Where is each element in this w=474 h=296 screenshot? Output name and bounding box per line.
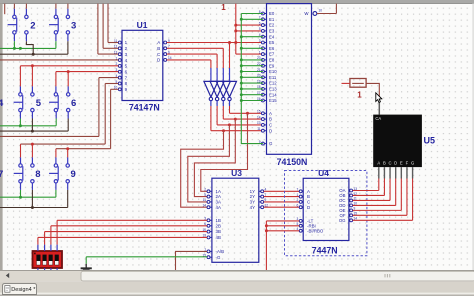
- node dark dot pair8b: [31, 206, 34, 209]
- pin 74150N E6: [263, 47, 267, 49]
- pin 74150N E8: [263, 59, 267, 61]
- DIP switch S1: [33, 251, 63, 268]
- node green dot E11: [240, 76, 243, 79]
- svg-text:1: 1: [297, 193, 299, 197]
- wire U1 D net: [167, 59, 211, 61]
- svg-text:2A: 2A: [216, 194, 221, 199]
- svg-text:6: 6: [259, 21, 261, 25]
- wire inverter output: [210, 101, 212, 106]
- wire staircase to U3: [188, 125, 230, 202]
- wire stub left: [4, 4, 6, 15]
- svg-text:B: B: [157, 46, 160, 51]
- wire pair9b top: [67, 149, 69, 158]
- display lead F: [406, 167, 408, 178]
- left window border: [0, 4, 3, 281]
- wire to U1 pin4: [0, 59, 118, 61]
- svg-text:-BI/RBO: -BI/RBO: [307, 228, 324, 233]
- switch J5b (open): [31, 93, 34, 112]
- wire green run row2: [0, 125, 56, 127]
- scrollbar left button: [6, 273, 9, 278]
- scrollbar thumb: [81, 271, 474, 281]
- wire run pair9 to U1 pin9: [56, 148, 111, 150]
- svg-text:3Y: 3Y: [250, 200, 255, 205]
- node green dot E6: [240, 47, 243, 50]
- pin U3 2Y: [259, 196, 262, 198]
- wire green run row3: [0, 196, 56, 198]
- wire green stub E10: [241, 71, 263, 73]
- mouse cursor: [376, 93, 382, 103]
- wire run to U1 pin7: [0, 135, 99, 137]
- pin U3 1Y: [259, 190, 262, 192]
- node dot staircase: [234, 118, 237, 121]
- wire R1 to display CA: [366, 83, 379, 97]
- wire inv3 input: [222, 48, 224, 68]
- svg-text:A: A: [307, 189, 310, 194]
- wire green stub E1: [241, 18, 263, 20]
- svg-text:E3: E3: [269, 29, 275, 34]
- svg-text:1: 1: [357, 90, 362, 99]
- display U5 body: [373, 115, 422, 168]
- svg-text:1A: 1A: [216, 189, 221, 194]
- svg-text:E2: E2: [269, 23, 275, 28]
- pin U3 1A: [209, 190, 212, 192]
- display lead D: [395, 167, 397, 178]
- node green dot E12: [240, 82, 243, 85]
- svg-text:5: 5: [259, 27, 261, 31]
- op-amp U1 box 74147N: [122, 30, 163, 100]
- display lead E: [400, 167, 402, 178]
- inverter U2a: [204, 81, 218, 97]
- switch J3a (closed): [49, 15, 58, 34]
- pin U3 2A: [209, 196, 212, 198]
- wire U4 ~LT: [266, 220, 299, 222]
- wire pair9a bottom: [55, 183, 57, 190]
- wire DIP run to U3: [38, 236, 207, 238]
- pin U1 output C: [163, 53, 165, 55]
- svg-text:E8: E8: [269, 58, 275, 63]
- wire switch top lead: [25, 9, 27, 16]
- svg-text:B: B: [269, 117, 272, 122]
- switch J3b (open): [66, 15, 69, 34]
- switch J9b (open): [66, 164, 69, 183]
- pin U3 2B: [209, 225, 212, 227]
- wire staircase to U3: [201, 113, 248, 191]
- wire green stub E15: [241, 100, 263, 102]
- svg-text:C: C: [269, 123, 272, 128]
- pin U3 ~A/B: [209, 250, 212, 252]
- svg-text:3: 3: [259, 39, 261, 43]
- pin 74150N C: [263, 124, 267, 126]
- svg-text:13: 13: [257, 121, 261, 125]
- node dot pair6b: [67, 70, 70, 73]
- svg-text:U5: U5: [424, 136, 436, 146]
- node green dot pair8a: [19, 196, 22, 199]
- pin U1 input 8: [120, 82, 122, 84]
- wire U4 control vertical: [265, 221, 267, 271]
- svg-text:11: 11: [257, 127, 261, 131]
- svg-text:1: 1: [221, 3, 226, 12]
- pin U4 OF: [349, 214, 351, 216]
- wire run pair8 to U1 pin8: [21, 143, 106, 145]
- svg-text:2: 2: [204, 188, 206, 192]
- pin U4 OB: [349, 194, 351, 196]
- pin U1 output A: [163, 42, 165, 44]
- wire pair6a bottom: [55, 112, 57, 119]
- svg-text:U1: U1: [137, 20, 148, 30]
- wire E2 stub: [236, 24, 263, 26]
- node green dot E1: [240, 18, 243, 21]
- wire DIP lead top: [56, 245, 58, 251]
- wire select run: [223, 118, 263, 120]
- svg-text:-A/B: -A/B: [216, 249, 225, 254]
- op-amp U3 box: [212, 178, 259, 262]
- node green dot E4: [240, 35, 243, 38]
- svg-text:D: D: [394, 161, 397, 166]
- pin U4 -BI/RBO: [301, 230, 304, 232]
- wire switch top lead: [13, 9, 15, 16]
- wire pair5a top: [19, 66, 21, 87]
- wire staircase to U3: [194, 119, 235, 197]
- svg-text:15: 15: [257, 110, 261, 114]
- wire green stub E14: [241, 94, 263, 96]
- svg-text:2: 2: [297, 198, 299, 202]
- pin 74150N D: [263, 130, 267, 132]
- pin U4 B: [301, 196, 304, 198]
- node green dot E14: [240, 93, 243, 96]
- switch J2a (closed): [8, 15, 17, 34]
- wire pair6b top: [67, 72, 69, 87]
- wire OC to display: [353, 199, 390, 201]
- wire OE to display: [353, 209, 402, 211]
- tab Design4: [3, 284, 37, 295]
- pin 74150N E15: [263, 100, 267, 102]
- svg-text:E11: E11: [269, 75, 277, 80]
- node green dot E15: [240, 99, 243, 102]
- right window border: [472, 4, 474, 271]
- wire to U1 pin3: [97, 4, 99, 55]
- pin 74150N E4: [263, 36, 267, 38]
- svg-text:G: G: [269, 141, 273, 146]
- pin U4 D: [301, 206, 304, 208]
- switch J5a (closed): [14, 93, 23, 112]
- svg-text:4Y: 4Y: [250, 205, 255, 210]
- node dot pair9b: [66, 147, 69, 150]
- pin 74150N E14: [263, 94, 267, 96]
- pin 74150N A: [263, 112, 267, 114]
- wire U4 ~RBI: [266, 225, 299, 227]
- wire OF to display: [353, 214, 407, 216]
- pin 74150N E1: [263, 18, 267, 20]
- svg-text:2B: 2B: [216, 223, 221, 228]
- node green dot E8: [240, 58, 243, 61]
- svg-text:Design4 *: Design4 *: [11, 287, 36, 293]
- wire J3a bottom: [55, 34, 57, 41]
- wire E-feed vertical: [235, 4, 237, 55]
- svg-text:C: C: [307, 200, 310, 205]
- svg-text:E5: E5: [269, 40, 275, 45]
- pin U1 input 7: [120, 77, 122, 79]
- node dot pair8b: [31, 143, 34, 146]
- svg-text:E6: E6: [269, 46, 275, 51]
- pin U1 input 4: [120, 59, 122, 61]
- wire DIP run to U3: [51, 225, 207, 227]
- pin U3 3A: [209, 201, 212, 203]
- node dark dot pair5b: [31, 130, 34, 133]
- pin 74150N G: [263, 143, 267, 145]
- wire U4 ~BI/RBO: [266, 230, 299, 232]
- wire green run row1: [0, 47, 56, 49]
- wire inverter output: [222, 101, 224, 106]
- wire dark run row2: [0, 130, 68, 132]
- pin U1 output B: [163, 47, 165, 49]
- wire inverter output: [216, 101, 218, 106]
- wire inv4 input: [229, 43, 231, 69]
- svg-text:E1: E1: [269, 17, 275, 22]
- pin U1 input 2: [120, 47, 122, 49]
- svg-text:A: A: [269, 111, 272, 116]
- wire pair9a top: [55, 149, 57, 158]
- svg-text:E9: E9: [269, 63, 275, 68]
- scrollbar row: [0, 270, 474, 281]
- wire ground green: [86, 256, 207, 258]
- svg-text:E15: E15: [269, 98, 277, 103]
- svg-text:E4: E4: [269, 34, 275, 39]
- wire staircase to U3: [181, 131, 224, 208]
- wire DIP lead bottom: [37, 268, 39, 271]
- svg-text:74150N: 74150N: [277, 157, 308, 167]
- pin U1 input 9: [120, 88, 122, 90]
- wire OG to display: [353, 219, 413, 221]
- wire inverter output: [229, 101, 231, 106]
- pin U3 4Y: [259, 206, 262, 208]
- svg-text:B: B: [383, 161, 386, 166]
- wire OA to display: [353, 190, 379, 192]
- node green dot: [19, 47, 22, 50]
- wire inv2 input: [216, 54, 218, 68]
- pin 74150N E10: [263, 71, 267, 73]
- wire U3 3Y to U4: [264, 201, 300, 203]
- wire J3b bottom: [67, 34, 69, 41]
- wire U3 2Y to U4: [264, 196, 300, 198]
- wire DIP run to U3: [57, 219, 207, 221]
- svg-text:74147N: 74147N: [129, 102, 160, 112]
- svg-text:1Y: 1Y: [250, 189, 255, 194]
- switch J8a (closed): [14, 164, 23, 183]
- wire U1 A net: [167, 42, 263, 44]
- display lead C: [389, 167, 391, 178]
- svg-text:3A: 3A: [216, 200, 221, 205]
- node dot staircase: [246, 112, 249, 115]
- node dot E3: [234, 29, 237, 32]
- tab bar bottom: [0, 295, 474, 296]
- wire green bus: [241, 14, 263, 144]
- wire inv1 input: [210, 60, 212, 68]
- node dot ~RBI: [265, 224, 268, 227]
- switch J9a (closed): [49, 164, 58, 183]
- svg-text:1: 1: [259, 50, 261, 54]
- wire OD to display: [353, 204, 396, 206]
- pin U3 4B: [209, 236, 212, 238]
- pin U1 input 3: [120, 53, 122, 55]
- svg-text:G: G: [411, 161, 414, 166]
- display U5 CA lead: [378, 97, 380, 115]
- svg-text:3B: 3B: [216, 229, 221, 234]
- pin 74150N E12: [263, 82, 267, 84]
- pin U4 -RBI: [301, 225, 304, 227]
- wire dark run row3: [0, 207, 68, 209]
- svg-text:B: B: [307, 194, 310, 199]
- wire OB to display: [353, 194, 385, 196]
- display lead B: [383, 167, 385, 178]
- op-amp U4 box 7447N: [303, 178, 349, 240]
- tab bar: [0, 282, 474, 296]
- pin U1 output D: [163, 59, 165, 61]
- svg-text:F: F: [406, 161, 409, 166]
- wire U1 B net: [167, 47, 224, 49]
- wire pair8b top: [31, 144, 33, 157]
- node dot A-inv4: [228, 41, 231, 44]
- pin U1 input 1: [120, 42, 122, 44]
- pin U4 OA: [349, 190, 351, 192]
- svg-text:-G: -G: [216, 255, 221, 260]
- node dot ~BI/RBO: [265, 229, 268, 232]
- svg-text:7: 7: [0, 169, 3, 180]
- pin U3 1B: [209, 219, 212, 221]
- svg-text:2: 2: [30, 20, 35, 31]
- wire run pair6 to U1 pin6: [56, 71, 118, 73]
- svg-text:U4: U4: [318, 168, 329, 178]
- wire run pair5 to U1 pin5: [20, 65, 118, 67]
- pin U4 C: [301, 201, 304, 203]
- pin 74150N E5: [263, 42, 267, 44]
- svg-text:9: 9: [70, 169, 75, 180]
- svg-text:7: 7: [297, 188, 299, 192]
- pin 74150N E2: [263, 24, 267, 26]
- wire DIP run to U3: [45, 231, 208, 233]
- switch J8b (open): [31, 164, 34, 183]
- pin 74150N E9: [263, 65, 267, 67]
- node dark dot J2b: [32, 53, 35, 56]
- pin U3 4A: [209, 206, 212, 208]
- pin 74150N W: [313, 12, 317, 16]
- wire pair8a bottom: [20, 183, 22, 190]
- wire DIP lead top: [44, 245, 46, 251]
- pin U4 OE: [349, 209, 351, 211]
- pin U4 OC: [349, 199, 351, 201]
- wire green stub E11: [241, 76, 263, 78]
- ground: [81, 264, 92, 270]
- wire to U1 pin2: [102, 4, 104, 49]
- wire ~A/B: [176, 251, 208, 270]
- wire E7 stub: [236, 53, 263, 55]
- svg-text:E0: E0: [269, 11, 275, 16]
- svg-text:C: C: [389, 161, 392, 166]
- svg-text:E: E: [400, 161, 403, 166]
- svg-text:CA: CA: [375, 116, 381, 121]
- wire green stub E4: [241, 36, 263, 38]
- wire green stub E13: [241, 88, 263, 90]
- inverter U2d: [223, 81, 237, 97]
- svg-text:8: 8: [35, 169, 40, 180]
- pin U4 A: [301, 190, 304, 192]
- svg-text:14: 14: [202, 204, 206, 208]
- svg-text:5: 5: [36, 98, 42, 109]
- wire dark run row1: [0, 53, 68, 55]
- switch J6a (closed): [49, 93, 58, 112]
- svg-text:10: 10: [319, 8, 323, 12]
- pin 74150N E11: [263, 76, 267, 78]
- wire green stub E12: [241, 82, 263, 84]
- node green dot E9: [240, 64, 243, 67]
- wire U3 1Y to U4: [264, 190, 300, 192]
- svg-text:E12: E12: [269, 81, 277, 86]
- svg-text:A: A: [157, 40, 160, 45]
- wire pair5a bottom: [19, 112, 21, 119]
- node green dot E10: [240, 70, 243, 73]
- pin 74150N B: [263, 118, 267, 120]
- pin 74150N E7: [263, 53, 267, 55]
- inverter U2b: [210, 81, 224, 97]
- node dot staircase: [222, 129, 225, 132]
- pin U4 OD: [349, 204, 351, 206]
- svg-text:D: D: [269, 128, 272, 133]
- switch J6b (open): [67, 93, 70, 112]
- svg-text:D: D: [307, 205, 310, 210]
- wire J2b bottom step: [25, 34, 27, 41]
- pin U1 input 6: [120, 71, 122, 73]
- wire green stub E0: [241, 13, 263, 15]
- svg-text:6: 6: [71, 98, 76, 109]
- wire switch top lead: [67, 9, 69, 16]
- wire U3 4Y to U4: [264, 206, 300, 208]
- svg-text:7447N: 7447N: [312, 246, 338, 256]
- node dot A-Evert: [234, 41, 237, 44]
- svg-text:E10: E10: [269, 69, 277, 74]
- svg-text:5: 5: [204, 193, 206, 197]
- node dot pair5b: [31, 64, 34, 67]
- svg-text:4B: 4B: [216, 235, 221, 240]
- wire R1 left stub: [342, 82, 350, 84]
- wire select run: [211, 130, 263, 132]
- switch J2b (open): [25, 15, 28, 34]
- tab icon: [5, 286, 10, 293]
- svg-text:E7: E7: [269, 52, 275, 57]
- svg-text:E14: E14: [269, 92, 277, 97]
- wire select run: [230, 112, 263, 114]
- node green dot J2a: [13, 47, 16, 50]
- svg-text:1B: 1B: [216, 218, 221, 223]
- node dot staircase: [228, 123, 231, 126]
- pin U3 ~G: [209, 256, 212, 258]
- resistor R1: [350, 79, 366, 88]
- svg-text:6: 6: [297, 204, 299, 208]
- wire W output: [317, 13, 337, 15]
- wire pair6a top: [55, 72, 57, 87]
- wire DIP lead bottom: [56, 268, 58, 271]
- wire switch top lead: [55, 9, 57, 16]
- pin U3 3B: [209, 231, 212, 233]
- pin U3 3Y: [259, 201, 262, 203]
- wire pair8a top: [20, 144, 22, 157]
- pin U4 OG: [349, 219, 351, 221]
- wire E3 stub: [236, 30, 263, 32]
- node green dot E13: [240, 87, 243, 90]
- pin 74150N E0: [263, 13, 267, 15]
- svg-text:U3: U3: [231, 168, 242, 178]
- wire pair5b bottom: [31, 112, 33, 119]
- svg-text:E13: E13: [269, 87, 277, 92]
- wire DIP lead bottom: [50, 268, 52, 271]
